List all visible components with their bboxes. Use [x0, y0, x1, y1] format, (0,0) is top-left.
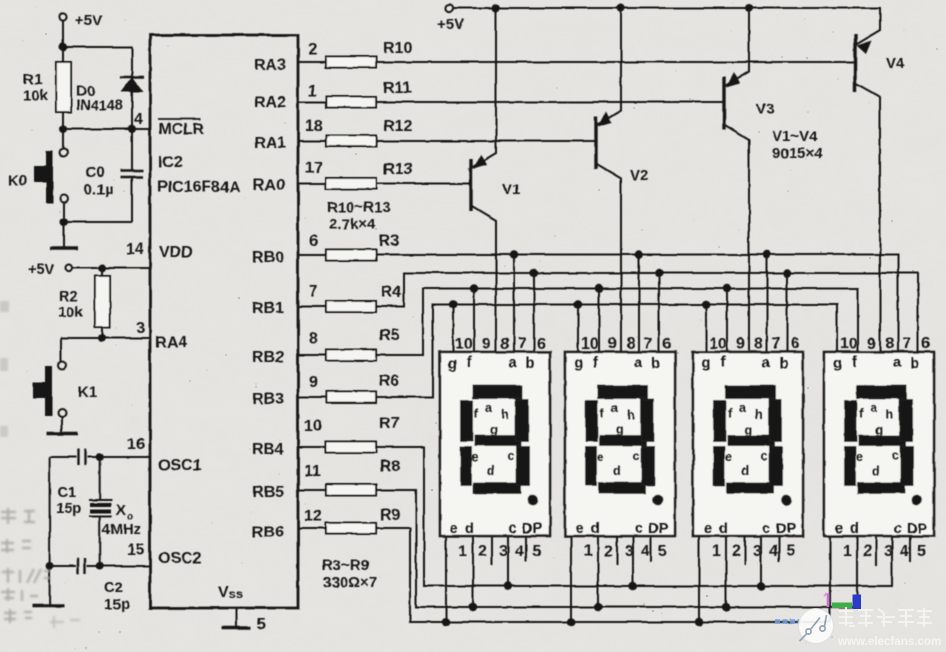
svg-text:16: 16 [127, 436, 145, 453]
svg-text:5: 5 [257, 616, 266, 633]
svg-text:IC2: IC2 [158, 154, 183, 171]
svg-text:OSC1: OSC1 [158, 457, 202, 474]
svg-text:RB4: RB4 [252, 441, 284, 458]
svg-text:5: 5 [532, 543, 541, 560]
svg-text:330Ω×7: 330Ω×7 [323, 574, 377, 591]
svg-text:2: 2 [478, 543, 487, 560]
svg-text:RB3: RB3 [252, 391, 284, 408]
svg-text:R1: R1 [23, 71, 42, 88]
svg-text:c: c [509, 521, 517, 537]
svg-text:R10~R13: R10~R13 [327, 199, 391, 216]
svg-text:10: 10 [455, 336, 473, 353]
svg-text:IN4148: IN4148 [76, 98, 123, 114]
svg-text:C0: C0 [85, 164, 104, 181]
svg-text:RA4: RA4 [155, 334, 187, 351]
svg-text:g: g [490, 423, 498, 437]
svg-text:C1: C1 [57, 484, 76, 501]
svg-text:15p: 15p [104, 596, 130, 613]
svg-text:R6: R6 [379, 373, 400, 390]
svg-text:V2: V2 [630, 167, 648, 184]
svg-text:C2: C2 [104, 579, 123, 596]
svg-text:11: 11 [304, 463, 321, 480]
svg-text:RB1: RB1 [252, 300, 284, 317]
svg-text:7: 7 [518, 336, 527, 353]
svg-text:10k: 10k [23, 87, 49, 104]
svg-text:R11: R11 [383, 80, 412, 97]
svg-text:d: d [487, 464, 495, 478]
svg-text:MCLR: MCLR [158, 121, 205, 138]
svg-text:14: 14 [126, 241, 144, 258]
svg-text:18: 18 [305, 118, 323, 135]
svg-text:www.elecfans.com: www.elecfans.com [837, 635, 941, 648]
svg-text:0.1µ: 0.1µ [84, 181, 114, 198]
svg-text:a: a [485, 401, 493, 415]
svg-text:K0: K0 [8, 172, 27, 189]
svg-text:RA2: RA2 [254, 94, 286, 111]
svg-text:12: 12 [304, 508, 322, 525]
svg-text:h: h [501, 408, 509, 422]
svg-text:V4: V4 [886, 55, 905, 72]
svg-text:V1: V1 [502, 181, 520, 198]
svg-text:R13: R13 [383, 161, 412, 178]
svg-text:10: 10 [304, 418, 322, 435]
svg-text:b: b [526, 356, 535, 372]
svg-text:7: 7 [309, 283, 318, 300]
svg-text:R3~R9: R3~R9 [322, 557, 369, 574]
svg-text:RA0: RA0 [253, 177, 285, 194]
svg-text:e: e [471, 450, 478, 464]
svg-text:RB0: RB0 [252, 249, 284, 266]
svg-text:9015×4: 9015×4 [772, 145, 823, 162]
svg-text:4: 4 [134, 111, 143, 128]
svg-text:X: X [116, 502, 126, 519]
svg-text:3: 3 [136, 320, 145, 337]
svg-text:R12: R12 [383, 118, 412, 135]
svg-text:V1~V4: V1~V4 [772, 128, 818, 145]
svg-text:RA3: RA3 [254, 57, 286, 74]
svg-text:OSC2: OSC2 [158, 550, 202, 567]
svg-text:4MHz: 4MHz [102, 521, 141, 538]
svg-text:9: 9 [482, 336, 491, 353]
svg-text:17: 17 [305, 160, 323, 177]
svg-text:8: 8 [309, 330, 318, 347]
svg-text:RA1: RA1 [254, 135, 286, 152]
svg-text:DP: DP [522, 521, 542, 537]
svg-text:R8: R8 [380, 458, 401, 475]
svg-text:R10: R10 [383, 40, 412, 57]
svg-text:+5V: +5V [28, 262, 55, 278]
svg-text:1: 1 [308, 83, 317, 100]
svg-text:+5V: +5V [75, 12, 102, 29]
svg-text:6: 6 [537, 336, 546, 353]
svg-text:R4: R4 [381, 284, 402, 301]
svg-text:4: 4 [515, 543, 524, 560]
svg-text:R5: R5 [379, 327, 400, 344]
svg-text:RB2: RB2 [252, 349, 284, 366]
svg-text:a: a [508, 355, 517, 371]
svg-text:R3: R3 [379, 233, 400, 250]
svg-text:+5V: +5V [437, 16, 464, 33]
svg-text:Vss: Vss [218, 584, 243, 601]
svg-text:VDD: VDD [159, 244, 193, 261]
svg-text:R9: R9 [380, 507, 401, 524]
svg-text:R7: R7 [379, 415, 400, 432]
svg-text:RB6: RB6 [252, 524, 284, 541]
svg-text:f: f [467, 355, 472, 371]
svg-text:d: d [465, 521, 474, 537]
svg-text:2.7k×4: 2.7k×4 [329, 216, 376, 233]
svg-text:2: 2 [308, 41, 317, 58]
svg-text:R2: R2 [59, 288, 78, 305]
svg-text:RB5: RB5 [252, 484, 284, 501]
svg-text:V3: V3 [756, 101, 774, 118]
svg-text:6: 6 [309, 233, 318, 250]
svg-text:1: 1 [458, 543, 467, 560]
svg-text:c: c [507, 449, 514, 463]
svg-text:K1: K1 [78, 384, 97, 401]
svg-text:15: 15 [127, 542, 145, 559]
svg-text:e: e [450, 521, 458, 537]
svg-text:9: 9 [309, 374, 318, 391]
svg-text:8: 8 [501, 336, 510, 353]
svg-text:PIC16F84A: PIC16F84A [157, 179, 241, 196]
svg-text:15p: 15p [56, 500, 82, 517]
svg-text:3: 3 [499, 543, 508, 560]
svg-text:g: g [448, 356, 457, 372]
svg-text:10k: 10k [58, 304, 84, 321]
